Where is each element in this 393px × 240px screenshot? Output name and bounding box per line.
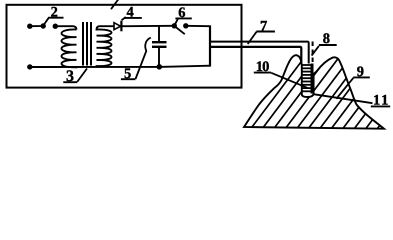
svg-text:3: 3 [66, 68, 74, 85]
label 8 leader [312, 46, 319, 56]
svg-text:7: 7 [260, 18, 267, 34]
transformer T1 primary winding [62, 29, 77, 67]
electrode rod right wall [311, 64, 314, 94]
switch S6 contact dot [183, 23, 188, 28]
capacitor C5 bottom lead [158, 47, 160, 67]
wire switch S6 to right bus [186, 25, 209, 27]
label 3 underline [63, 81, 77, 83]
transformer core line 1 [82, 22, 84, 66]
transformer core line 3 [90, 22, 92, 66]
label 9 leader [336, 78, 353, 99]
wire switch to transformer primary [55, 26, 76, 29]
label 7 underline [256, 31, 275, 33]
enclosure box 1 [7, 5, 242, 88]
label 11 underline [371, 105, 390, 107]
svg-text:11: 11 [373, 92, 388, 108]
svg-text:9: 9 [357, 64, 364, 80]
label 3 leader [77, 69, 87, 82]
electrode 8 hidden line (dashed) [312, 42, 314, 65]
diode D4 triangle [114, 23, 121, 30]
label 8 underline [319, 44, 337, 46]
transformer T1 secondary winding [97, 26, 115, 66]
label 6 underline [175, 17, 191, 19]
label 5 leader [136, 38, 151, 79]
switch S2 pivot dot [41, 23, 46, 28]
capacitor C5 bottom plate [152, 46, 167, 48]
label 6 leader [175, 19, 178, 26]
svg-text:8: 8 [323, 31, 330, 47]
svg-text:5: 5 [124, 66, 131, 82]
switch S2 blade / label 2 leader [43, 18, 49, 26]
svg-text:10: 10 [256, 59, 270, 75]
capacitor C5 top plate [152, 41, 167, 43]
diode D4 cathode bar [120, 21, 122, 32]
right bus vertical wire [209, 25, 211, 66]
switch S6 pivot dot [172, 23, 177, 28]
switch S6 open blade [175, 27, 185, 35]
label 10 underline [254, 72, 271, 74]
terminal dot bottom input [27, 64, 32, 69]
label 10 leader [271, 73, 307, 88]
twin lead 7 lower wire / electrode left wall [210, 47, 301, 95]
svg-text:2: 2 [51, 4, 58, 20]
junction dot capacitor bottom [157, 64, 163, 70]
bottom rail wire [30, 66, 210, 67]
wire diode to switch S6 [121, 25, 172, 27]
mound of soil 9 outline [244, 55, 384, 129]
label 4 leader [122, 17, 126, 20]
switch S2 contact dot [53, 24, 58, 29]
label 4 underline [124, 17, 142, 19]
transformer core line 2 [86, 22, 88, 66]
twin lead 7 upper wire [210, 42, 309, 64]
capacitor C5 top lead [158, 26, 160, 42]
label 2 underline [48, 17, 63, 19]
wire input to switch [30, 25, 43, 27]
svg-text:4: 4 [127, 5, 134, 21]
label 11 leader [314, 94, 373, 103]
soil hatching [245, 50, 393, 137]
label 1 leader [111, 0, 118, 9]
electrode rod thread ticks [302, 65, 310, 91]
terminal dot top input [27, 24, 32, 29]
label 5 underline [121, 78, 135, 80]
label 9 underline [353, 76, 370, 78]
svg-text:6: 6 [178, 5, 185, 21]
label 7 leader [248, 32, 257, 44]
